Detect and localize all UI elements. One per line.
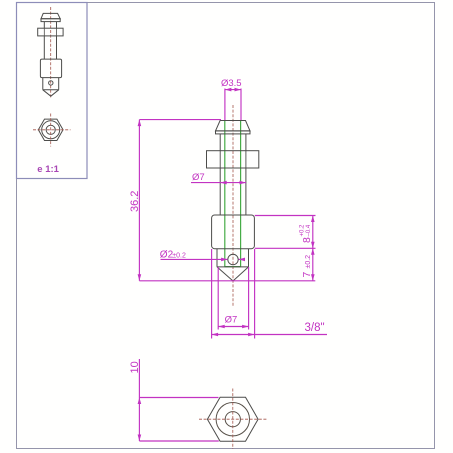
bottom view: hexagon [207, 397, 258, 441]
dim 3/8: extension lines [211, 249, 213, 339]
dim 10: dimension line [138, 359, 140, 441]
dim Ø7 middle: dimension line with leader [191, 182, 246, 184]
small bottom view: centerline horizontal [33, 129, 71, 131]
small bottom view: bore circle [46, 125, 55, 134]
dim 8 and 7: dimension line [312, 216, 314, 281]
dim Ø3.5: arrows [225, 88, 241, 92]
dim 7: arrows [311, 248, 315, 280]
bottom view: centerline horizontal [199, 418, 267, 420]
svg-text:Ø7: Ø7 [225, 314, 238, 325]
small front view: cap [41, 13, 60, 18]
main view: cap rim [216, 131, 251, 134]
svg-text:±0.2: ±0.2 [305, 255, 312, 269]
small front view: collar hex [38, 28, 63, 36]
dim Ø7 bottom: arrows [218, 325, 248, 329]
svg-text:36.2: 36.2 [129, 191, 141, 212]
dim Ø7 middle: arrows [220, 181, 246, 185]
small bottom view: thread circle [42, 121, 60, 139]
dim 8: bottom extension line [255, 247, 316, 249]
dim 3/8: dimension line [212, 334, 327, 336]
svg-text:e 1:1: e 1:1 [37, 164, 59, 175]
dim 3/8: arrows [212, 333, 255, 337]
small bottom view: centerline vertical [50, 114, 52, 147]
bottom view: thread circle [216, 403, 249, 436]
dim Ø3.5: extension lines [224, 89, 226, 121]
main view: neck [219, 134, 221, 151]
svg-text:8: 8 [301, 237, 313, 243]
dim 36.2: dimension line [138, 120, 140, 281]
dim 10: bottom reference line [139, 440, 218, 442]
small front view: block [40, 59, 61, 78]
bottom view: centerline vertical [232, 389, 234, 450]
small front view: tip cone [43, 90, 59, 96]
main view: tip cone [217, 267, 249, 281]
main view: collar hex [207, 151, 259, 168]
svg-text:+0.2: +0.2 [300, 224, 306, 237]
small front view: cap rim [41, 19, 60, 22]
small bottom view: hexagon [38, 119, 63, 140]
dim 10: arrows [138, 398, 142, 442]
main view: bore line right (green) [240, 121, 242, 267]
svg-text:3/8": 3/8" [305, 322, 325, 334]
dim Ø7 bottom: extension lines [217, 267, 219, 330]
small front view: neck [43, 22, 45, 29]
dim Ø2: leader line [161, 258, 228, 260]
main view: shaft [219, 168, 221, 215]
dim 36.2: arrows [138, 120, 142, 281]
main view: block [212, 215, 255, 249]
scale box top-left [17, 3, 88, 179]
main view: bore line left (green) [224, 121, 226, 267]
svg-text:7: 7 [301, 272, 313, 278]
svg-text:10: 10 [129, 361, 141, 373]
dim 36.2: top reference line [139, 119, 221, 121]
svg-text:–0.4: –0.4 [306, 224, 312, 236]
main view: tip hole [228, 254, 238, 264]
bottom view: bore circle [225, 412, 240, 427]
main view: bore bottom (green) [225, 266, 241, 268]
dim Ø2: left arrow [221, 258, 228, 262]
svg-text:±0.2: ±0.2 [172, 253, 186, 260]
dim 10: top reference line [139, 397, 218, 399]
dim Ø7 bottom: dimension line [218, 326, 248, 328]
main view: centerline [232, 105, 234, 307]
small front view: shaft [43, 36, 45, 59]
svg-text:Ø3.5: Ø3.5 [221, 78, 242, 89]
dim Ø3.5: dimension line [225, 89, 241, 91]
svg-text:Ø7: Ø7 [192, 172, 205, 183]
main view: tip box [217, 249, 249, 267]
small front view: tip box [43, 78, 59, 90]
small front view: centerline [50, 7, 52, 99]
dim 8: top extension line [255, 215, 316, 217]
main view: cap [216, 121, 251, 131]
dim 36.2: bottom reference line (long) [139, 280, 315, 282]
dim Ø2: right arrow [239, 258, 246, 262]
dim 8: arrows [311, 216, 315, 249]
small front view: tip hole [49, 81, 53, 85]
